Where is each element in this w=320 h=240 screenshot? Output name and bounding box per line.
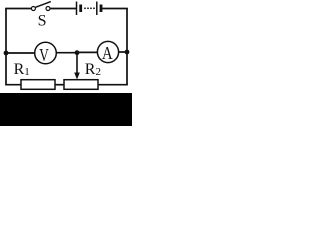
node left junction xyxy=(4,51,9,56)
battery cell 2 long plate xyxy=(96,2,98,16)
wire between resistors xyxy=(55,84,65,86)
wire right vertical xyxy=(126,8,128,85)
svg-text:A: A xyxy=(102,43,113,63)
wire ammeter to right xyxy=(119,51,128,53)
ammeter A xyxy=(97,41,118,62)
wire top-right segment xyxy=(102,8,128,10)
switch S right terminal xyxy=(46,7,50,11)
battery dots xyxy=(84,7,86,9)
rheostat slider wire xyxy=(76,53,78,74)
svg-text:S: S xyxy=(38,12,47,29)
battery cell 1 short plate xyxy=(79,5,82,13)
black bar xyxy=(0,93,132,126)
switch S left terminal xyxy=(31,7,35,11)
wire to voltmeter xyxy=(6,52,35,54)
battery cell 2 short plate xyxy=(100,5,103,13)
resistor R2 xyxy=(64,80,98,90)
battery cell 1 long plate xyxy=(76,2,78,16)
resistor R1 xyxy=(21,80,55,90)
rheostat slider arrowhead xyxy=(74,73,80,80)
svg-text:V: V xyxy=(39,45,49,65)
switch S blade xyxy=(36,2,51,8)
wire voltmeter to node xyxy=(56,52,77,54)
wire bottom-right segment xyxy=(98,84,128,86)
node slider junction xyxy=(75,50,80,55)
wire bottom-left segment xyxy=(5,84,21,86)
node right junction xyxy=(125,50,130,55)
wire top-left segment xyxy=(5,8,31,10)
wire node to ammeter xyxy=(77,51,98,53)
wire top middle segment xyxy=(50,8,76,10)
voltmeter V xyxy=(35,42,57,64)
wire left vertical xyxy=(5,8,7,85)
